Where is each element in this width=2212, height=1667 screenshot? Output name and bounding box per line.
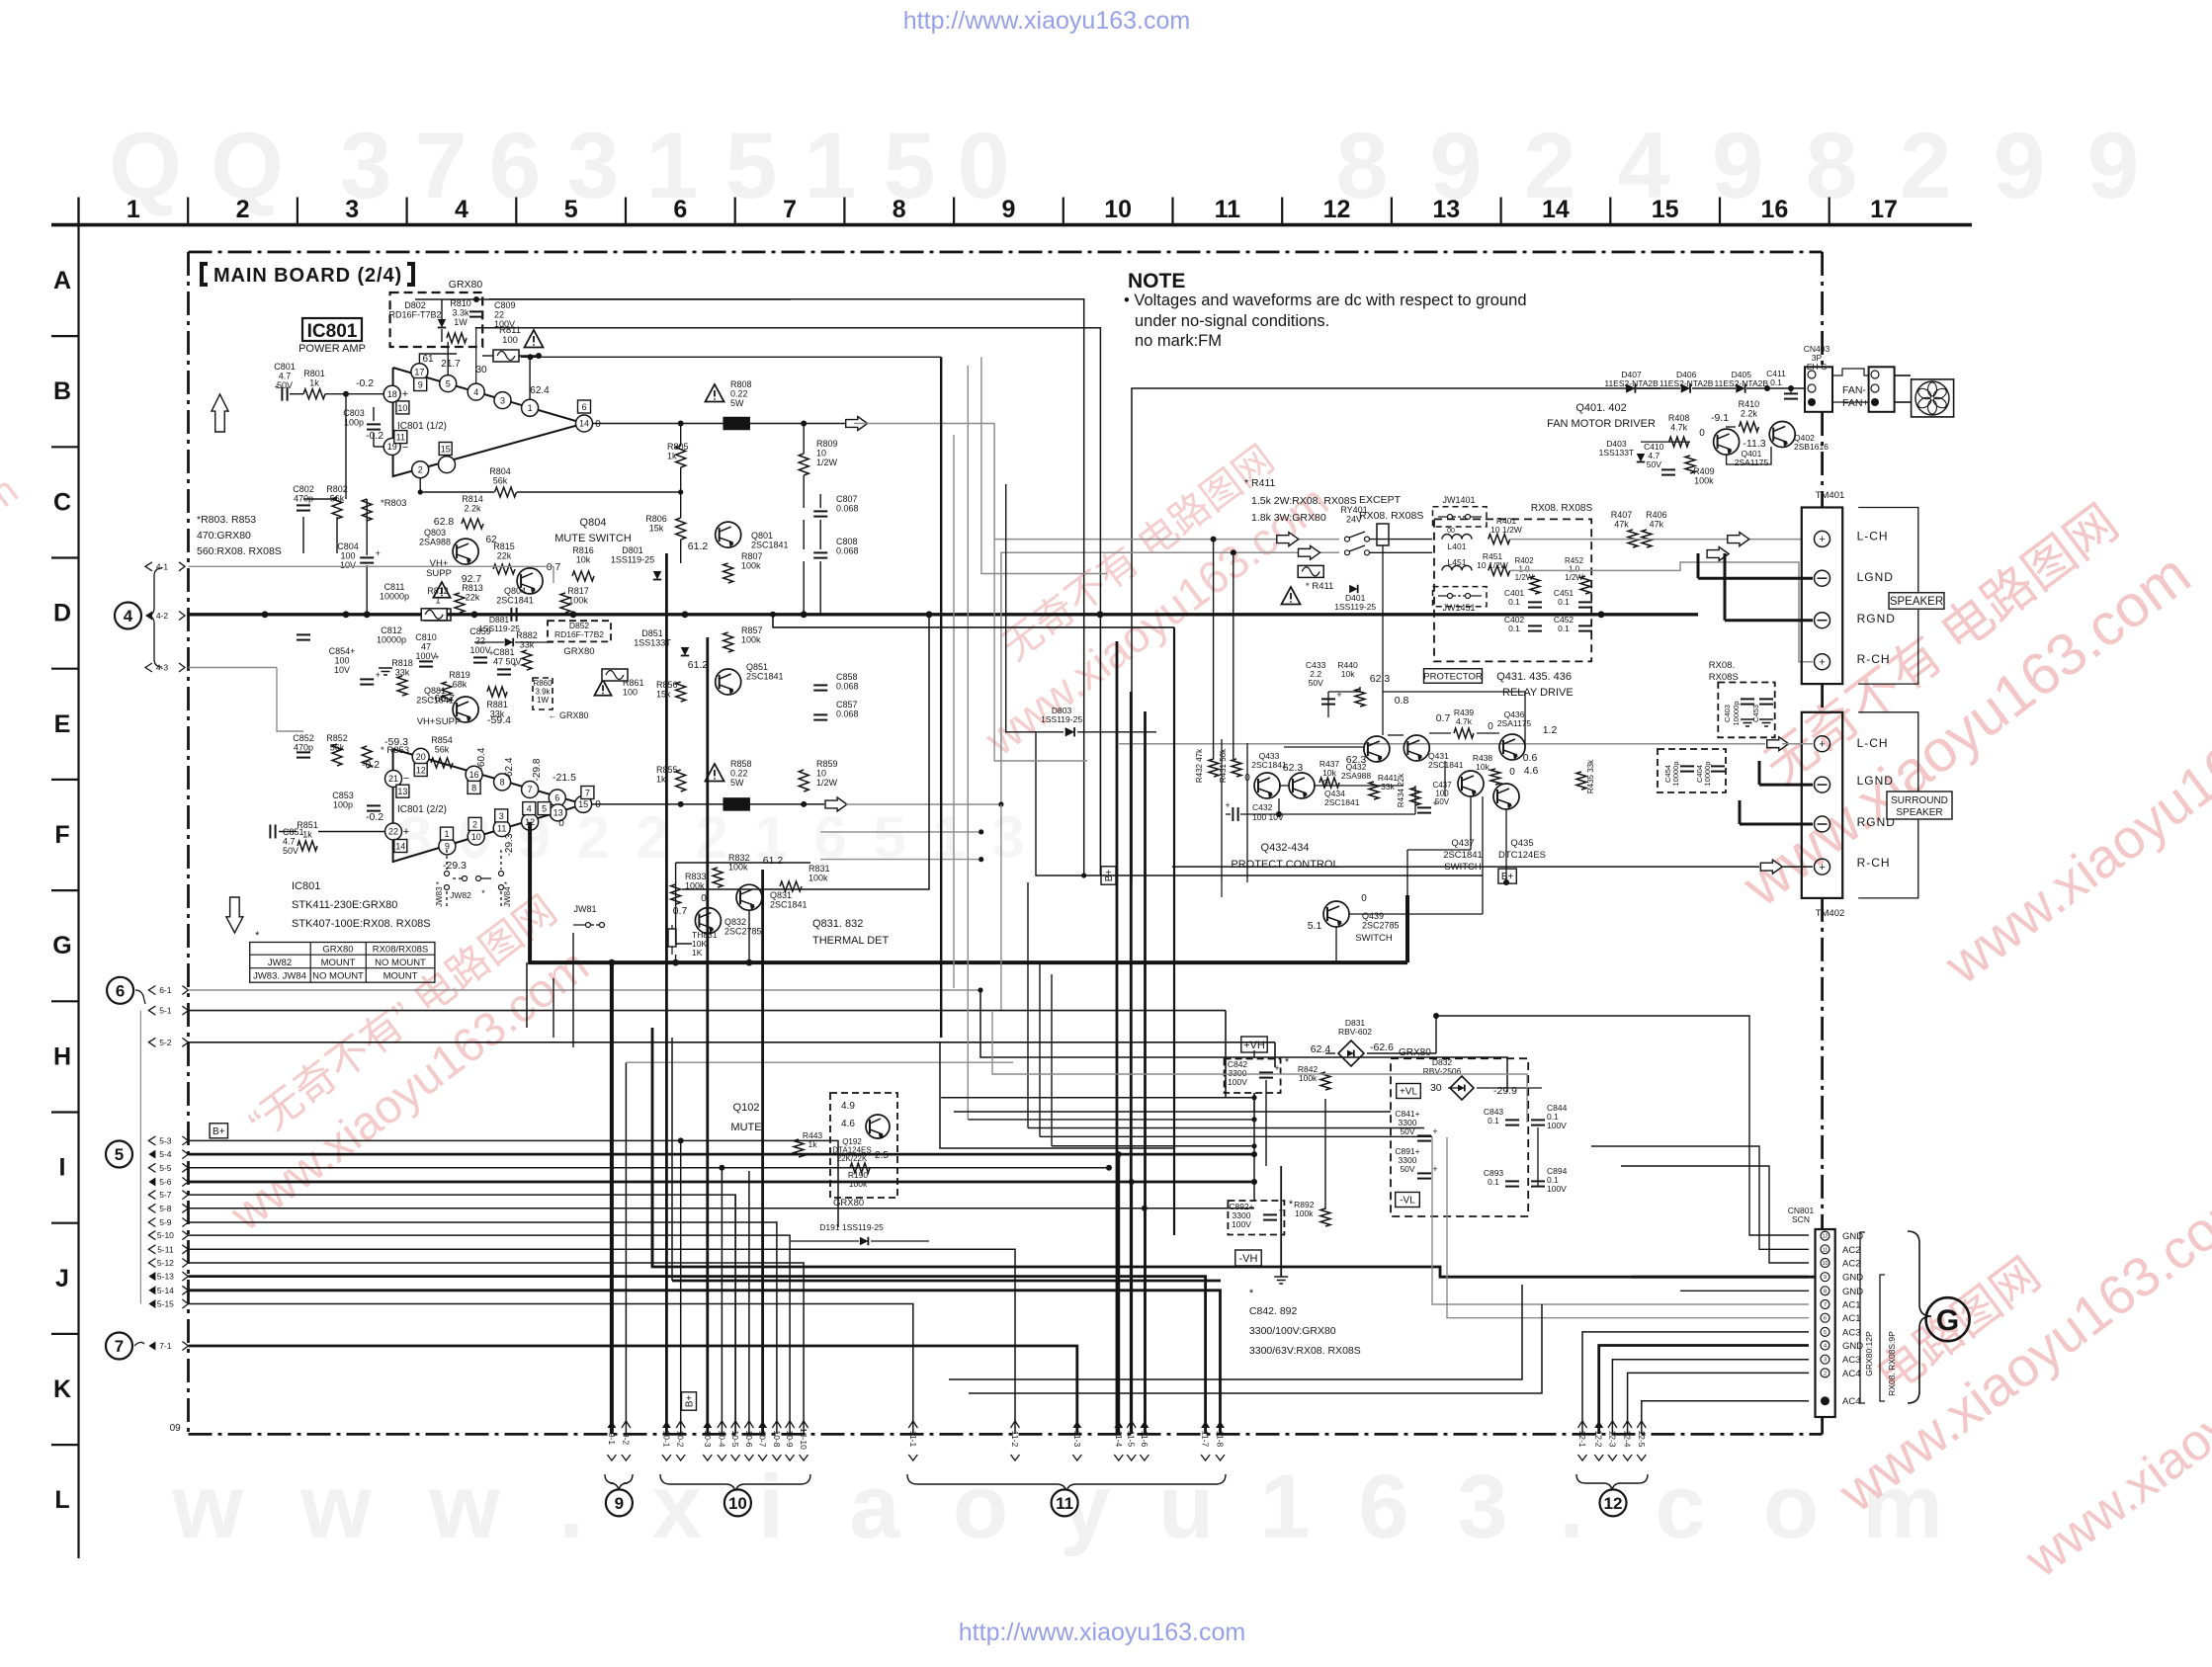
svg-text:10k: 10k: [1341, 669, 1355, 679]
connector 5-5: [148, 1163, 155, 1172]
svg-text:2SB1616: 2SB1616: [1794, 442, 1829, 452]
wire CN403 to fan: [1832, 369, 1868, 375]
svg-text:*: *: [1289, 1199, 1294, 1210]
connector 10-3: [703, 1421, 713, 1460]
transistor Q435 DTC124ES: [1493, 784, 1519, 809]
svg-text:L451: L451: [1448, 557, 1467, 567]
svg-text:+: +: [376, 670, 381, 680]
wire R803 C804: [366, 499, 368, 555]
circled 5: [106, 1141, 132, 1168]
op-amp2 square 14: [394, 840, 407, 853]
wire diodes to CN403: [1637, 387, 1680, 389]
svg-text:RD16F-T7B2: RD16F-T7B2: [554, 629, 604, 639]
thermal bus to protect: [1405, 895, 1409, 962]
svg-text:9-2: 9-2: [621, 1433, 631, 1446]
svg-text:C858: C858: [836, 672, 858, 682]
svg-text:* R853: * R853: [381, 745, 409, 756]
svg-text:10: 10: [1822, 1261, 1828, 1267]
bottom group 9: [607, 1421, 617, 1460]
svg-text:4-3: 4-3: [156, 663, 169, 673]
psu thick L wires: [652, 1155, 1815, 1277]
ruler row ticks: [51, 335, 79, 337]
svg-text:100k: 100k: [741, 561, 761, 571]
svg-text:SWITCH: SWITCH: [1444, 862, 1482, 873]
svg-text:61.2: 61.2: [688, 659, 709, 671]
dashed box C454 C404: [1658, 749, 1726, 792]
svg-text:3300/63V:RX08. RX08S: 3300/63V:RX08. RX08S: [1249, 1345, 1361, 1357]
svg-text:17: 17: [1870, 196, 1898, 223]
svg-text:1SS119-25: 1SS119-25: [1334, 602, 1376, 612]
thick bus thermal down: [530, 822, 1407, 962]
signal line L to relay: [854, 423, 994, 425]
op-amp1 square 9: [414, 378, 427, 391]
svg-text:10000p: 10000p: [1671, 761, 1680, 786]
TM401 pin R-CH plus: [1815, 654, 1830, 670]
transistor Q437 2SC1841: [1458, 771, 1484, 796]
svg-text:4.6: 4.6: [1524, 765, 1539, 777]
svg-text:0.1: 0.1: [1558, 597, 1570, 607]
connector 12-5: [1637, 1421, 1647, 1460]
svg-text:-0.2: -0.2: [356, 377, 374, 389]
connector 5-15: [148, 1299, 155, 1308]
svg-text:GRX80: GRX80: [563, 646, 594, 657]
svg-text:THERMAL DET: THERMAL DET: [812, 935, 889, 947]
svg-text:9-1: 9-1: [607, 1433, 617, 1446]
svg-text:GRX80: GRX80: [449, 279, 483, 291]
svg-text:5-15: 5-15: [157, 1299, 174, 1309]
svg-text:J: J: [55, 1265, 69, 1292]
svg-text:3: 3: [991, 804, 1024, 871]
transistor Q431 2SC1841: [1404, 735, 1429, 761]
svg-text:0: 0: [1509, 767, 1515, 778]
wire 4-1 line: [189, 565, 554, 567]
svg-text:1SS133T: 1SS133T: [1599, 448, 1634, 458]
svg-text:7: 7: [115, 1337, 124, 1356]
wire 6-1 line: [189, 989, 981, 991]
svg-text:100: 100: [340, 551, 355, 561]
nested corner wires left-middle: [682, 615, 929, 889]
op-amp2 pin 6: [549, 790, 565, 806]
svg-text:D851: D851: [641, 628, 663, 638]
svg-text:1.2: 1.2: [1543, 724, 1558, 736]
svg-text:33k: 33k: [490, 709, 505, 719]
bracket RX08 9P: [1880, 1275, 1885, 1401]
svg-text:R809: R809: [816, 439, 838, 449]
svg-text:RX08. RX08S: RX08. RX08S: [1359, 510, 1423, 522]
svg-text:+: +: [1819, 534, 1825, 545]
svg-text:B+: B+: [685, 1395, 696, 1408]
transistor Q434 2SC1841: [1289, 773, 1315, 798]
svg-text:5-13: 5-13: [157, 1272, 174, 1282]
svg-text:47k: 47k: [1614, 520, 1629, 530]
svg-text:R808: R808: [730, 379, 752, 389]
op-amp1 square 15: [439, 443, 452, 456]
watermark pink diagonal right bottom: [1787, 1074, 2212, 1654]
svg-text:100k: 100k: [808, 874, 828, 883]
svg-text:AC4: AC4: [1842, 1396, 1860, 1407]
svg-text:RELAY DRIVE: RELAY DRIVE: [1502, 687, 1574, 699]
dashed box C403 C453: [1718, 683, 1774, 738]
svg-text:470p: 470p: [294, 743, 313, 753]
relay contact R: [1345, 550, 1350, 555]
wire C803: [345, 394, 347, 499]
block arrow down-left: [226, 897, 243, 933]
svg-text:2: 2: [1824, 1371, 1827, 1376]
svg-text:5: 5: [873, 804, 905, 871]
svg-text:12: 12: [1323, 196, 1351, 223]
svg-text:61.2: 61.2: [688, 541, 709, 552]
svg-text:IC801 (2/2): IC801 (2/2): [397, 804, 447, 815]
svg-text:L-CH: L-CH: [1857, 530, 1889, 543]
svg-text:0.22: 0.22: [730, 769, 748, 779]
svg-text:+: +: [275, 382, 280, 391]
svg-text:11: 11: [1056, 1494, 1073, 1513]
svg-text:15k: 15k: [656, 690, 671, 700]
svg-text:RY401: RY401: [1340, 505, 1367, 515]
svg-text:00: 00: [1447, 528, 1455, 535]
svg-text:R818: R818: [391, 658, 413, 668]
CN801 pin GND: [1821, 1287, 1829, 1295]
warning triangle R811: [525, 330, 544, 348]
svg-text:6: 6: [489, 114, 542, 218]
svg-text:2.2k: 2.2k: [464, 504, 481, 514]
svg-text:5: 5: [725, 114, 778, 218]
svg-text:5.1: 5.1: [1308, 920, 1322, 932]
svg-text:MOUNT: MOUNT: [321, 958, 356, 968]
svg-text:POWER AMP: POWER AMP: [298, 343, 366, 355]
svg-text:JW1401: JW1401: [1442, 495, 1475, 505]
svg-text:1k: 1k: [309, 378, 319, 388]
svg-text:−: −: [403, 773, 409, 785]
psu bus feeder verticals: [1027, 882, 1029, 1128]
svg-text:14: 14: [1542, 196, 1570, 223]
op-amp2 square 3: [495, 809, 508, 822]
TM402 pin RGND: [1815, 816, 1830, 832]
wire fan feed: [1132, 388, 1660, 882]
svg-text:11: 11: [1215, 196, 1241, 223]
svg-text:13: 13: [553, 808, 563, 818]
connector 5-11: [148, 1245, 155, 1254]
op-amp2 square 4: [523, 802, 536, 815]
wire output net verticals: [680, 424, 682, 447]
svg-text:2SC1841: 2SC1841: [751, 541, 789, 550]
svg-text:10: 10: [471, 832, 481, 842]
svg-text:0.1: 0.1: [1508, 624, 1520, 633]
svg-text:6: 6: [1824, 1316, 1827, 1322]
dashed box RX08 RX08S relay: [1434, 519, 1591, 661]
op-amp2 pin 13: [550, 804, 566, 821]
svg-text:+: +: [1819, 862, 1825, 874]
svg-text:SPEAKER: SPEAKER: [1890, 596, 1943, 608]
svg-text:TM401: TM401: [1816, 490, 1845, 501]
connector 5-2: [148, 1038, 155, 1046]
svg-text:JW84 *: JW84 *: [503, 881, 512, 907]
op-amp2 pin 16: [466, 766, 482, 783]
svg-text:8: 8: [893, 196, 906, 223]
+VL label: [1397, 1084, 1421, 1099]
connector 10-5: [730, 1421, 740, 1460]
svg-text:7: 7: [1824, 1302, 1827, 1308]
svg-text:VH+SUPP: VH+SUPP: [417, 716, 462, 727]
svg-text:-21.5: -21.5: [553, 772, 576, 784]
wire 9-2 riser: [625, 1062, 627, 1434]
svg-text:Q881: Q881: [424, 686, 446, 696]
wire 9-2 top branch: [626, 1061, 1013, 1063]
wire 5-2 line: [189, 1042, 1276, 1043]
svg-text:+VH: +VH: [1243, 1040, 1265, 1051]
connector 12-1: [1577, 1421, 1587, 1460]
CN801 pin GND: [1821, 1341, 1829, 1350]
svg-text:3: 3: [345, 196, 359, 223]
B+ label bottom rotated: [682, 1392, 697, 1410]
wire 5-11 route: [189, 1249, 1016, 1434]
svg-text:5: 5: [1824, 1330, 1827, 1336]
svg-text:AC4: AC4: [1842, 1369, 1860, 1379]
svg-text:• Voltages and waveforms are d: • Voltages and waveforms are dc with res…: [1124, 292, 1527, 309]
thermistor TH831: [668, 929, 676, 947]
connector 5-1: [148, 1006, 155, 1015]
svg-text:R815: R815: [493, 542, 515, 551]
svg-text:4: 4: [455, 196, 468, 223]
svg-text:10V: 10V: [334, 665, 350, 675]
main board border left: [187, 252, 190, 1434]
op-amp1 input pin 19: [383, 439, 400, 456]
svg-text:C857: C857: [836, 700, 858, 709]
svg-text:R432 47k: R432 47k: [1195, 748, 1204, 783]
svg-text:2SC1841: 2SC1841: [746, 672, 784, 682]
svg-text:21: 21: [388, 774, 398, 784]
svg-text:-62.6: -62.6: [1370, 1042, 1394, 1053]
block arrow relay L: [1277, 533, 1299, 546]
svg-text:09: 09: [170, 1423, 182, 1434]
svg-text:C811: C811: [384, 582, 405, 592]
svg-text:100V: 100V: [469, 645, 490, 655]
svg-text:24V: 24V: [1346, 515, 1362, 525]
CN801 pin AC4: [1821, 1369, 1829, 1377]
svg-text:5W: 5W: [730, 398, 744, 408]
coil L401: [1442, 535, 1472, 540]
TM402 pin R-CH plus: [1815, 859, 1830, 875]
svg-text:100p: 100p: [333, 800, 353, 810]
svg-text:9: 9: [615, 1494, 624, 1513]
svg-text:18: 18: [387, 389, 397, 399]
svg-text:c: c: [1655, 1457, 1705, 1557]
svg-text:Q102: Q102: [733, 1102, 760, 1114]
connector 10-10: [799, 1421, 808, 1460]
svg-text:4: 4: [1824, 1344, 1827, 1350]
transistor Q832 2SC2785: [695, 908, 721, 934]
svg-text:22: 22: [494, 310, 504, 320]
svg-text:C812: C812: [381, 625, 402, 635]
svg-text:+: +: [512, 660, 517, 670]
svg-text:3: 3: [1824, 1358, 1827, 1364]
connector 11-8: [1216, 1421, 1226, 1460]
connector 11-2: [1010, 1421, 1020, 1460]
thermal det frame wire: [676, 863, 692, 944]
wire net into bundle a: [820, 831, 981, 833]
connector 11-4: [1114, 1421, 1124, 1460]
svg-text:SCN: SCN: [1792, 1214, 1810, 1224]
relay line taps to protect control: [1213, 540, 1215, 759]
svg-text:1: 1: [1259, 1457, 1310, 1557]
svg-text:100V: 100V: [1547, 1121, 1567, 1130]
op-amp2 pin 7: [522, 782, 539, 798]
svg-text:+: +: [1432, 1126, 1437, 1136]
svg-text:R832: R832: [728, 853, 750, 863]
svg-text:4: 4: [473, 387, 478, 397]
dashed box R860 3.9k 1W: [533, 678, 553, 709]
main board border top: [189, 251, 1823, 254]
svg-text:33k: 33k: [1381, 782, 1395, 792]
bracket GRX80 12P: [1860, 1232, 1865, 1403]
svg-text:LGND: LGND: [1857, 570, 1894, 584]
svg-text:0.068: 0.068: [836, 709, 859, 719]
svg-text:100k: 100k: [741, 635, 761, 645]
svg-text:w: w: [428, 1457, 500, 1557]
svg-text:x: x: [651, 1457, 702, 1557]
svg-text:0: 0: [558, 818, 564, 829]
svg-text:2SA1175: 2SA1175: [1735, 458, 1769, 467]
svg-text:10: 10: [728, 1494, 747, 1513]
riser x560: [553, 978, 554, 1038]
psu bus line 3: [968, 1119, 1254, 1121]
svg-text:5-9: 5-9: [159, 1217, 172, 1227]
svg-text:10000p: 10000p: [1732, 701, 1741, 725]
svg-text:2SC1841: 2SC1841: [1251, 760, 1287, 770]
op-amp2 pin 22: [385, 823, 402, 840]
svg-text:22: 22: [475, 636, 485, 646]
svg-text:12: 12: [1822, 1234, 1828, 1240]
svg-text:IC801: IC801: [292, 880, 320, 892]
svg-text:5: 5: [542, 804, 547, 814]
G area stair wires: [949, 1285, 1522, 1379]
svg-text:+: +: [403, 826, 409, 838]
svg-text:47k: 47k: [1650, 520, 1664, 530]
svg-text:1SS119-25: 1SS119-25: [1041, 714, 1082, 724]
-VL label: [1396, 1193, 1420, 1208]
wire 12 risers: [1582, 1332, 1809, 1434]
svg-text:under no-signal conditions.: under no-signal conditions.: [1135, 312, 1329, 330]
svg-text:5W: 5W: [730, 778, 744, 788]
transistor Q192: [866, 1115, 890, 1138]
svg-text:MOUNT: MOUNT: [383, 971, 418, 982]
svg-text:+: +: [402, 388, 408, 400]
svg-text:R812: R812: [427, 586, 449, 596]
CN801 pin AC1: [1821, 1300, 1829, 1309]
connector 10-2: [676, 1421, 686, 1460]
svg-text:R816: R816: [572, 545, 594, 555]
svg-text:10k: 10k: [576, 555, 591, 565]
op-amp1 pin 14 output: [576, 415, 593, 432]
svg-text:0.068: 0.068: [836, 504, 859, 514]
svg-text:w: w: [171, 1457, 243, 1557]
svg-text:Q435: Q435: [1510, 838, 1533, 849]
svg-text:7: 7: [528, 785, 533, 794]
svg-text:D: D: [53, 600, 71, 627]
svg-text:R-CH: R-CH: [1857, 652, 1891, 666]
watermark pink diagonal left: [185, 886, 605, 1242]
dashed box GRX80 psu: [1391, 1058, 1528, 1216]
svg-text:5-10: 5-10: [157, 1230, 174, 1240]
signal line R to relay: [846, 552, 1339, 804]
psu bus line 5: [1040, 1135, 1432, 1137]
svg-text:62.8: 62.8: [434, 516, 455, 528]
svg-text:50V: 50V: [277, 380, 293, 390]
staircase corner wires middle: [980, 990, 1507, 1092]
svg-text:10: 10: [816, 449, 826, 458]
svg-text:100V: 100V: [415, 651, 436, 661]
svg-text:MAIN BOARD (2/4): MAIN BOARD (2/4): [213, 265, 402, 287]
op-amp2 pin 8: [494, 774, 511, 791]
svg-text:0.7: 0.7: [1436, 712, 1451, 724]
svg-text:1: 1: [528, 403, 533, 413]
svg-text:8: 8: [471, 783, 476, 792]
connector 5-8: [148, 1204, 155, 1212]
svg-text:100k: 100k: [849, 1179, 868, 1189]
svg-text:R406: R406: [1646, 510, 1667, 520]
svg-text:Q831. 832: Q831. 832: [812, 918, 863, 930]
op-amp2 square 7: [581, 787, 594, 799]
svg-text:R817: R817: [567, 586, 589, 596]
terminal G circle: [1926, 1297, 1970, 1341]
svg-text:C854+: C854+: [329, 646, 356, 656]
op-amp2 square 2: [468, 817, 481, 830]
svg-text:RBV-602: RBV-602: [1338, 1027, 1372, 1037]
svg-text:0.22: 0.22: [730, 389, 748, 399]
svg-text:2: 2: [1900, 114, 1952, 218]
svg-text:+VL: +VL: [1400, 1087, 1418, 1098]
svg-text:Q432-434: Q432-434: [1261, 842, 1310, 854]
svg-text:-29.8: -29.8: [532, 758, 543, 781]
svg-text:68k: 68k: [453, 680, 468, 690]
svg-text:GRX80: GRX80: [322, 945, 353, 956]
transistor Q401 2SA1175: [1714, 429, 1740, 455]
svg-text:no mark:FM: no mark:FM: [1135, 332, 1222, 350]
svg-text:B+: B+: [213, 1126, 225, 1137]
resistor R411 fusible: [1298, 565, 1323, 577]
svg-text:2SC2785: 2SC2785: [724, 927, 762, 937]
svg-text:8: 8: [1824, 1289, 1827, 1294]
wire 7-1 line: [189, 1346, 1077, 1434]
svg-text:MUTE SWITCH: MUTE SWITCH: [554, 533, 632, 544]
svg-text:8: 8: [1806, 114, 1858, 218]
svg-text:RX08.: RX08.: [1709, 660, 1735, 671]
svg-text:1.8k 3W:GRX80: 1.8k 3W:GRX80: [1251, 512, 1326, 524]
svg-text:Q801: Q801: [751, 531, 773, 541]
svg-text:0: 0: [1361, 893, 1367, 904]
svg-text:R802: R802: [326, 484, 348, 494]
block arrow relay R: [1299, 545, 1320, 559]
op-amp1 pin 4: [468, 383, 484, 400]
svg-text:http://www.xiaoyu163.com: http://www.xiaoyu163.com: [959, 1619, 1245, 1646]
svg-text:R410: R410: [1739, 399, 1760, 409]
svg-text:SURROUND: SURROUND: [1891, 795, 1948, 806]
psu bus line 2: [954, 1111, 1391, 1113]
psu bus line 6: [1052, 1145, 1254, 1147]
connector 11-1: [908, 1421, 918, 1460]
svg-text:D191 1SS119-25: D191 1SS119-25: [819, 1222, 884, 1232]
svg-text:9: 9: [2087, 114, 2140, 218]
op-amp2 square 8: [468, 781, 480, 793]
svg-text:R814: R814: [462, 494, 483, 504]
svg-text:1W: 1W: [454, 317, 468, 327]
svg-text:-60.4: -60.4: [476, 747, 487, 770]
svg-text:SUPP: SUPP: [426, 568, 452, 579]
svg-text:22k: 22k: [497, 551, 512, 561]
op-amp1 pin 1: [522, 399, 539, 416]
block arrow TM401 R: [1707, 547, 1729, 561]
svg-text:5-14: 5-14: [157, 1286, 174, 1295]
